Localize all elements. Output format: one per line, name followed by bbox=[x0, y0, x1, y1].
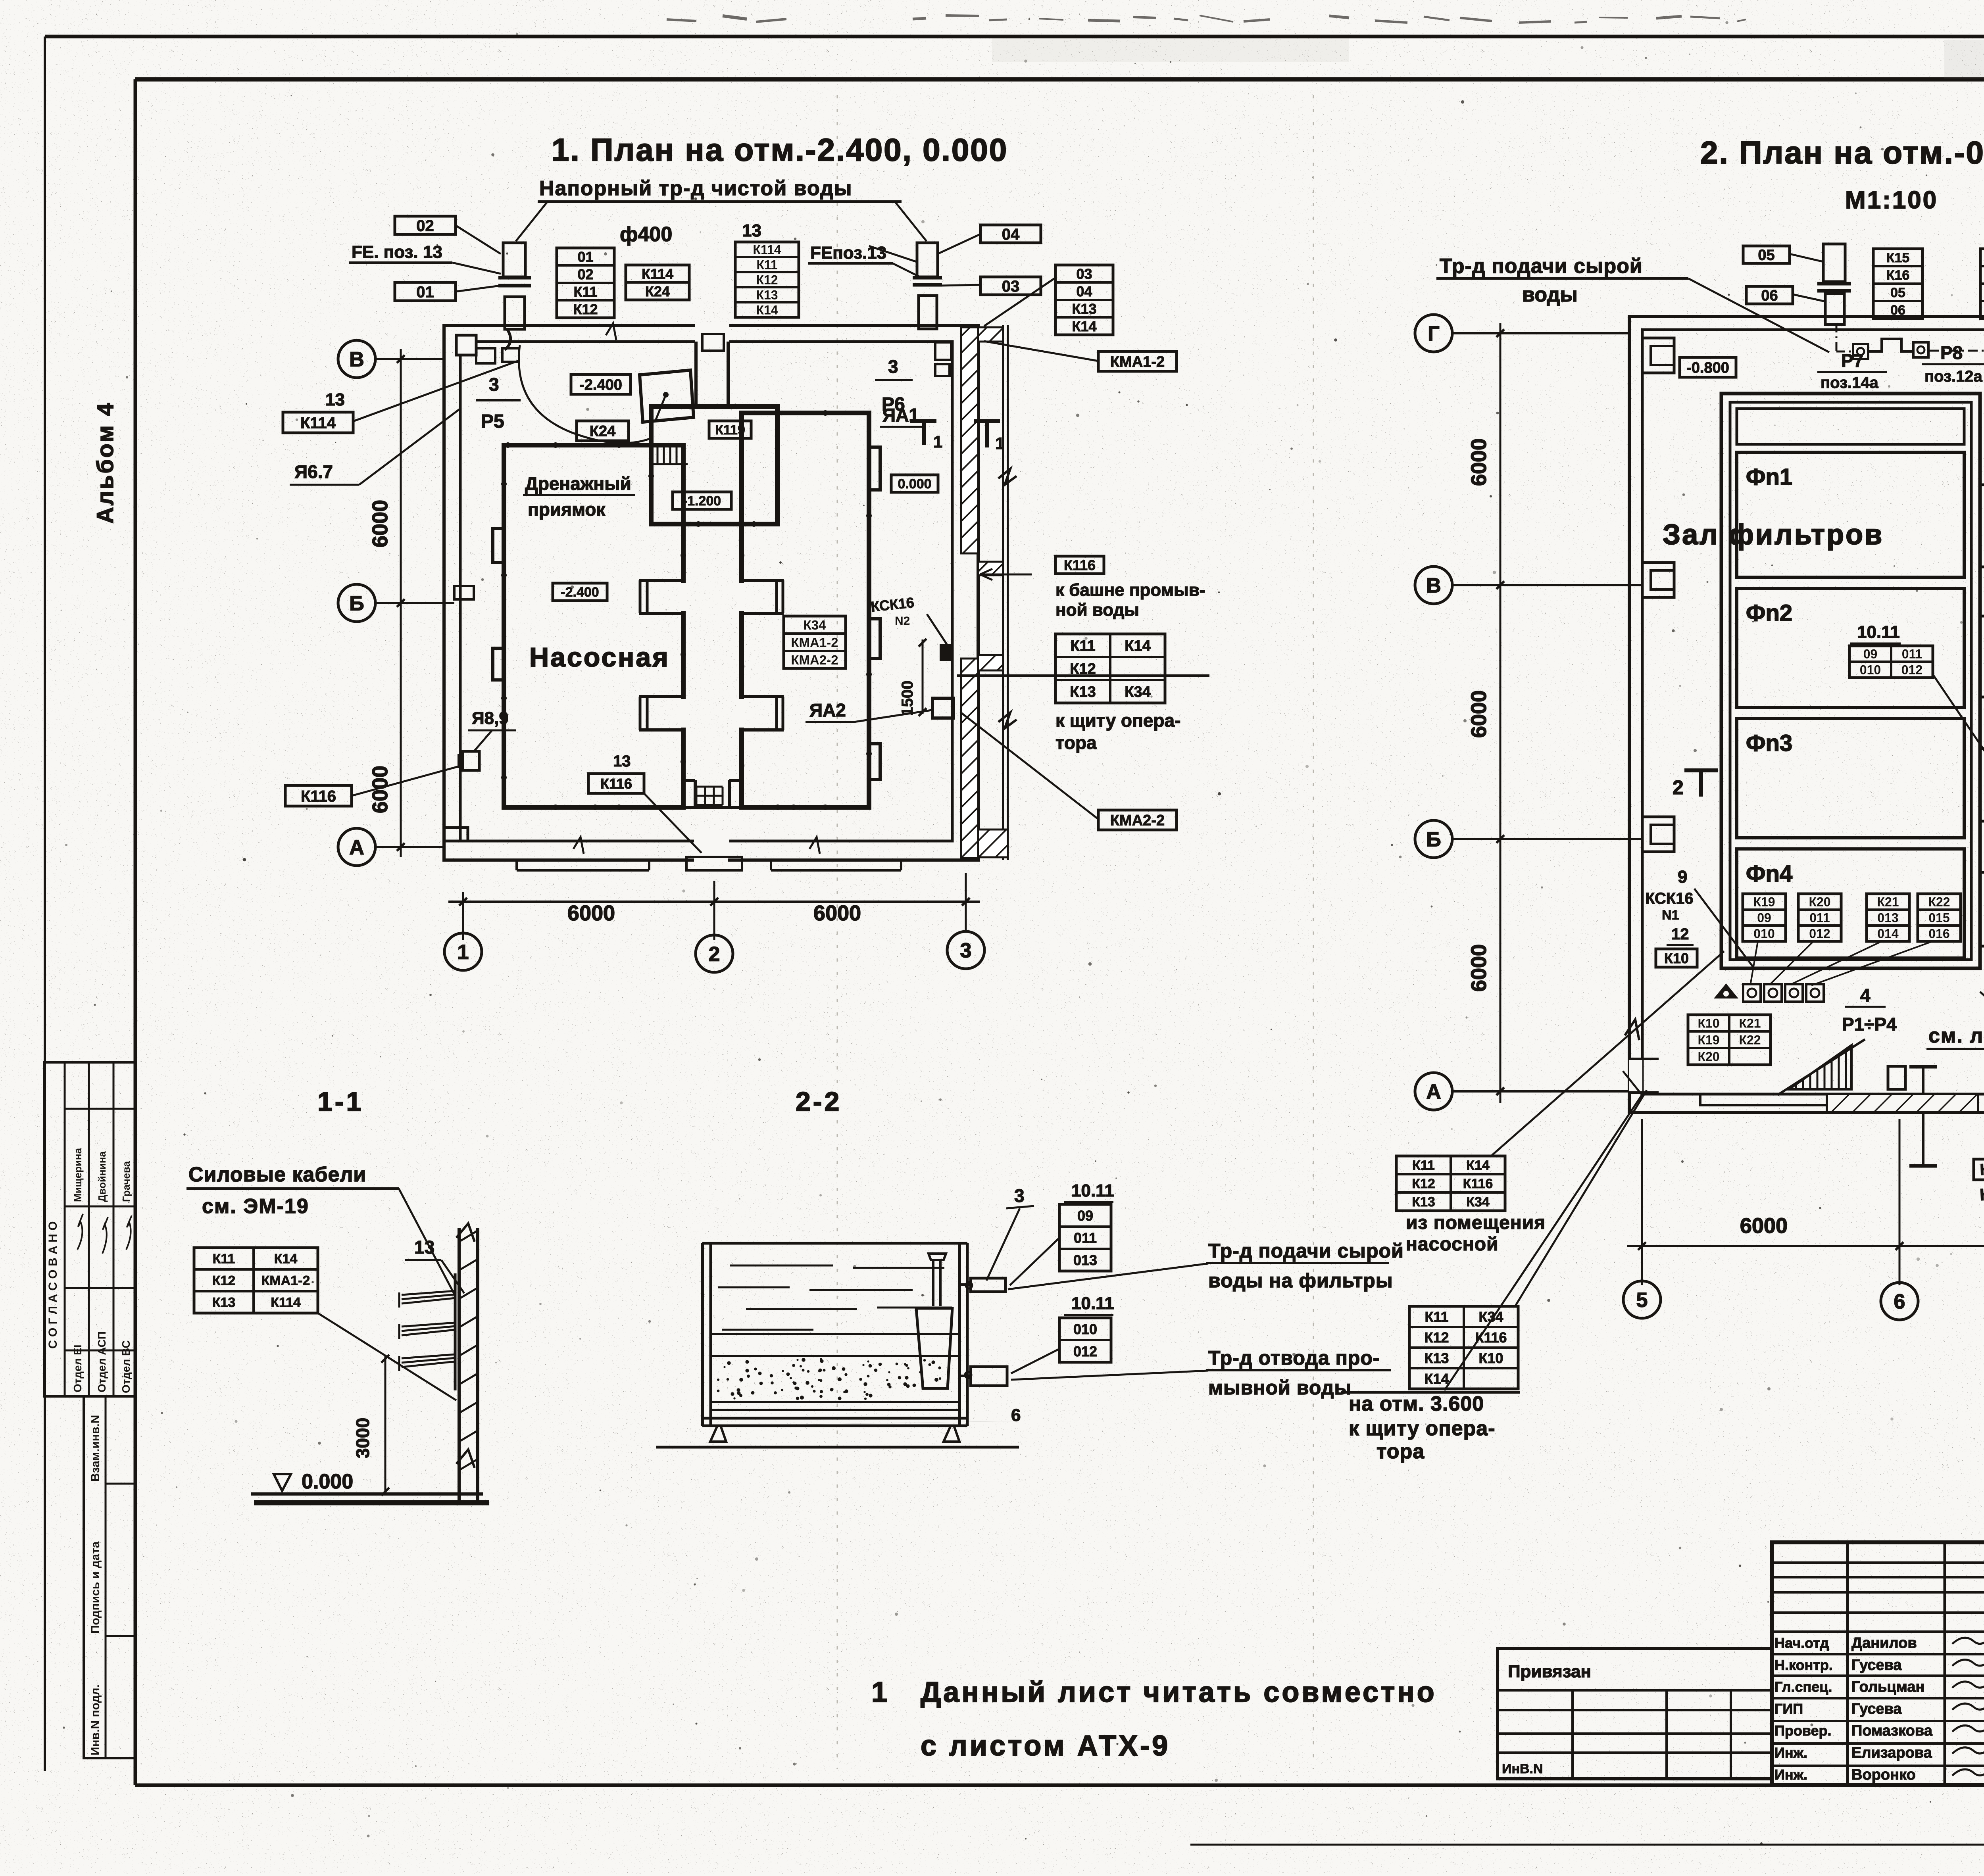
svg-text:010: 010 bbox=[1073, 1321, 1097, 1337]
svg-text:мывной воды: мывной воды bbox=[1208, 1377, 1352, 1399]
svg-text:КМА2-2: КМА2-2 bbox=[1110, 812, 1165, 829]
svg-text:05: 05 bbox=[1758, 247, 1774, 264]
svg-text:К21: К21 bbox=[1739, 1016, 1761, 1031]
svg-text:1-1: 1-1 bbox=[317, 1087, 363, 1117]
svg-text:К114: К114 bbox=[271, 1295, 301, 1310]
svg-text:03: 03 bbox=[1002, 278, 1020, 295]
svg-text:К116: К116 bbox=[600, 776, 632, 792]
svg-text:FE. поз. 13: FE. поз. 13 bbox=[352, 242, 442, 262]
svg-text:К12: К12 bbox=[573, 301, 598, 317]
svg-text:Н.контр.: Н.контр. bbox=[1774, 1657, 1833, 1673]
svg-text:КМА2-2: КМА2-2 bbox=[791, 653, 838, 667]
svg-text:К16: К16 bbox=[1886, 268, 1910, 283]
svg-text:ной воды: ной воды bbox=[1055, 600, 1139, 620]
svg-text:1. План на отм.-2.400, 0.000: 1. План на отм.-2.400, 0.000 bbox=[552, 132, 1008, 167]
svg-text:К11: К11 bbox=[573, 284, 597, 300]
svg-text:Фn2: Фn2 bbox=[1746, 600, 1792, 626]
svg-text:Данилов: Данилов bbox=[1851, 1635, 1917, 1651]
svg-text:Насосная: Насосная bbox=[529, 642, 670, 672]
svg-text:012: 012 bbox=[1073, 1343, 1097, 1359]
svg-text:К14: К14 bbox=[274, 1252, 298, 1267]
svg-text:Б: Б bbox=[1426, 828, 1441, 851]
svg-text:013: 013 bbox=[1073, 1252, 1097, 1268]
svg-text:К114: К114 bbox=[753, 243, 781, 257]
svg-text:-1.200: -1.200 bbox=[683, 493, 721, 509]
svg-text:А: А bbox=[1426, 1081, 1441, 1104]
svg-text:6000: 6000 bbox=[1467, 690, 1491, 738]
svg-text:К13: К13 bbox=[1424, 1350, 1449, 1366]
svg-text:3000: 3000 bbox=[352, 1418, 373, 1458]
svg-text:13: 13 bbox=[414, 1237, 434, 1258]
svg-text:В: В bbox=[1426, 574, 1441, 597]
svg-text:3: 3 bbox=[1014, 1185, 1025, 1206]
svg-text:тора: тора bbox=[1055, 732, 1097, 753]
svg-text:К119: К119 bbox=[715, 422, 745, 438]
svg-text:2: 2 bbox=[709, 943, 720, 966]
svg-text:К14: К14 bbox=[756, 303, 778, 317]
svg-text:приямок: приямок bbox=[528, 499, 606, 520]
svg-text:010: 010 bbox=[1753, 927, 1774, 941]
svg-text:10.11: 10.11 bbox=[1071, 1294, 1114, 1313]
svg-text:Р5: Р5 bbox=[481, 411, 504, 432]
svg-text:6000: 6000 bbox=[368, 500, 392, 547]
svg-text:FEпоз.13: FEпоз.13 bbox=[810, 243, 886, 263]
svg-text:04: 04 bbox=[1002, 226, 1020, 243]
svg-text:-0.800: -0.800 bbox=[1686, 360, 1729, 376]
svg-text:К13: К13 bbox=[1072, 301, 1096, 317]
svg-text:К19: К19 bbox=[1753, 895, 1775, 909]
svg-text:011: 011 bbox=[1809, 911, 1830, 925]
svg-text:К114: К114 bbox=[642, 266, 673, 282]
svg-text:6000: 6000 bbox=[813, 901, 861, 925]
svg-text:Напорный тр-д чистой воды: Напорный тр-д чистой воды bbox=[539, 177, 852, 200]
svg-text:09: 09 bbox=[1863, 647, 1878, 661]
svg-text:2-2: 2-2 bbox=[796, 1087, 842, 1117]
svg-text:КМА1-2: КМА1-2 bbox=[1110, 354, 1165, 371]
svg-text:Я8,9: Я8,9 bbox=[472, 709, 509, 728]
svg-text:015: 015 bbox=[1928, 911, 1949, 925]
svg-text:С О Г Л А С О В А Н О: С О Г Л А С О В А Н О bbox=[46, 1221, 60, 1349]
svg-text:09: 09 bbox=[1077, 1208, 1093, 1224]
svg-text:К12: К12 bbox=[212, 1273, 236, 1288]
svg-text:09: 09 bbox=[1757, 911, 1771, 925]
svg-text:011: 011 bbox=[1902, 647, 1922, 661]
svg-text:к щиту опера-: к щиту опера- bbox=[1349, 1417, 1496, 1440]
svg-text:06: 06 bbox=[1761, 288, 1778, 304]
svg-text:3: 3 bbox=[489, 374, 499, 395]
svg-text:Грачева: Грачева bbox=[120, 1161, 132, 1202]
svg-text:6000: 6000 bbox=[1740, 1214, 1788, 1238]
svg-text:Гольцман: Гольцман bbox=[1851, 1679, 1924, 1696]
svg-text:К11: К11 bbox=[1412, 1158, 1435, 1173]
svg-text:9: 9 bbox=[1678, 867, 1687, 887]
svg-text:Р1÷Р4: Р1÷Р4 bbox=[1842, 1014, 1897, 1035]
svg-text:Провер.: Провер. bbox=[1774, 1722, 1832, 1739]
svg-text:5: 5 bbox=[1636, 1289, 1648, 1312]
svg-text:Тр-д подачи сырой: Тр-д подачи сырой bbox=[1440, 255, 1643, 278]
svg-text:2: 2 bbox=[1673, 776, 1684, 799]
svg-text:см. ЭМ-19: см. ЭМ-19 bbox=[202, 1195, 309, 1218]
svg-text:К11: К11 bbox=[1425, 1309, 1448, 1325]
svg-text:К11: К11 bbox=[756, 258, 777, 272]
svg-text:6000: 6000 bbox=[1467, 438, 1491, 486]
svg-text:Тр-д отвода про-: Тр-д отвода про- bbox=[1208, 1347, 1380, 1369]
svg-text:ГИП: ГИП bbox=[1774, 1701, 1803, 1717]
svg-text:012: 012 bbox=[1809, 927, 1830, 941]
svg-text:-2.400: -2.400 bbox=[579, 377, 622, 394]
svg-text:К116: К116 bbox=[301, 787, 336, 805]
svg-text:13: 13 bbox=[742, 221, 761, 240]
svg-text:к щиту опера-: к щиту опера- bbox=[1055, 710, 1180, 731]
svg-text:1: 1 bbox=[871, 1676, 887, 1708]
svg-text:с листом АТХ-9: с листом АТХ-9 bbox=[921, 1730, 1170, 1762]
svg-text:ЯА2: ЯА2 bbox=[809, 700, 846, 720]
svg-text:К13: К13 bbox=[1070, 684, 1096, 701]
svg-text:N1: N1 bbox=[1662, 908, 1679, 923]
svg-text:Отдел АСП: Отдел АСП bbox=[96, 1331, 108, 1392]
svg-text:К12: К12 bbox=[1412, 1176, 1435, 1191]
svg-text:К19: К19 bbox=[1698, 1033, 1719, 1047]
svg-text:1: 1 bbox=[933, 432, 942, 451]
svg-text:К34: К34 bbox=[1478, 1309, 1503, 1325]
svg-text:А: А bbox=[349, 836, 364, 859]
svg-text:Б: Б bbox=[349, 592, 364, 615]
svg-text:М1:100: М1:100 bbox=[1845, 186, 1938, 214]
svg-text:К13: К13 bbox=[1412, 1194, 1435, 1210]
svg-text:01: 01 bbox=[577, 249, 593, 265]
svg-text:10.11: 10.11 bbox=[1071, 1181, 1114, 1200]
svg-text:К114: К114 bbox=[300, 414, 336, 432]
svg-text:0.000: 0.000 bbox=[302, 1470, 353, 1493]
svg-text:03: 03 bbox=[1076, 266, 1092, 282]
svg-text:поз.12а: поз.12а bbox=[1924, 368, 1983, 385]
svg-text:Взам.инв.N: Взам.инв.N bbox=[89, 1415, 102, 1482]
svg-text:воды: воды bbox=[1522, 283, 1578, 306]
svg-text:Привязан: Привязан bbox=[1508, 1662, 1591, 1681]
svg-text:К14: К14 bbox=[1072, 318, 1096, 334]
svg-text:Инв.N подл.: Инв.N подл. bbox=[89, 1684, 102, 1755]
svg-text:Фn3: Фn3 bbox=[1746, 730, 1792, 756]
svg-text:насосной: насосной bbox=[1406, 1234, 1499, 1255]
svg-text:012: 012 bbox=[1901, 663, 1922, 677]
svg-text:К14: К14 bbox=[1125, 638, 1150, 655]
svg-text:тора: тора bbox=[1376, 1440, 1425, 1463]
svg-text:011: 011 bbox=[1074, 1230, 1097, 1246]
svg-text:3: 3 bbox=[888, 356, 898, 377]
svg-text:Зал фильтров: Зал фильтров bbox=[1663, 519, 1884, 551]
svg-text:Г: Г bbox=[1428, 323, 1439, 346]
svg-text:К116: К116 bbox=[1064, 557, 1096, 573]
svg-text:К14: К14 bbox=[1466, 1158, 1490, 1173]
svg-text:010: 010 bbox=[1860, 663, 1881, 677]
svg-text:06: 06 bbox=[1890, 303, 1905, 318]
svg-text:Данный лист читать совместно: Данный лист читать совместно bbox=[921, 1676, 1437, 1708]
svg-text:6000: 6000 bbox=[1467, 944, 1491, 992]
svg-text:ИнВ.N: ИнВ.N bbox=[1502, 1761, 1543, 1776]
svg-text:Дренажный: Дренажный bbox=[525, 473, 631, 494]
svg-text:Подпись и дата: Подпись и дата bbox=[89, 1541, 102, 1634]
svg-text:КМА1-2: КМА1-2 bbox=[261, 1273, 310, 1288]
svg-text:Фn1: Фn1 bbox=[1746, 464, 1792, 490]
svg-text:014: 014 bbox=[1877, 927, 1899, 941]
svg-text:10.11: 10.11 bbox=[1857, 622, 1900, 642]
svg-text:N2: N2 bbox=[895, 614, 910, 628]
svg-text:на отм. 3.600: на отм. 3.600 bbox=[1349, 1392, 1484, 1415]
svg-text:К34: К34 bbox=[1466, 1194, 1490, 1210]
svg-text:воды на фильтры: воды на фильтры bbox=[1208, 1269, 1393, 1292]
svg-text:К11: К11 bbox=[213, 1252, 235, 1267]
svg-text:К12: К12 bbox=[1424, 1329, 1449, 1346]
svg-text:02: 02 bbox=[577, 266, 593, 282]
svg-text:Отдел ЕI: Отдел ЕI bbox=[71, 1345, 84, 1393]
svg-text:К22: К22 bbox=[1928, 895, 1950, 909]
svg-text:ф400: ф400 bbox=[620, 223, 672, 246]
svg-text:13: 13 bbox=[325, 390, 345, 409]
svg-text:К20: К20 bbox=[1809, 895, 1830, 909]
svg-text:6000: 6000 bbox=[567, 901, 615, 925]
svg-text:Елизарова: Елизарова bbox=[1851, 1745, 1932, 1761]
svg-text:К11: К11 bbox=[1070, 638, 1095, 655]
svg-text:Двойнина: Двойнина bbox=[96, 1151, 108, 1202]
svg-text:Тр-д подачи сырой: Тр-д подачи сырой bbox=[1208, 1240, 1404, 1262]
svg-text:К20: К20 bbox=[1698, 1050, 1719, 1064]
svg-text:016: 016 bbox=[1928, 927, 1949, 941]
svg-text:К15: К15 bbox=[1886, 250, 1910, 265]
svg-text:Мищерина: Мищерина bbox=[72, 1148, 84, 1202]
svg-text:К13: К13 bbox=[756, 288, 778, 302]
svg-text:013: 013 bbox=[1877, 911, 1898, 925]
svg-text:04: 04 bbox=[1076, 283, 1092, 300]
svg-text:см. лист ЭМ-20: см. лист ЭМ-20 bbox=[1928, 1024, 1984, 1047]
svg-text:0.000: 0.000 bbox=[898, 476, 931, 492]
svg-text:к башне промыв-: к башне промыв- bbox=[1055, 580, 1205, 600]
svg-text:2. План на отм.-0.800; 0.000: 2. План на отм.-0.800; 0.000 bbox=[1700, 135, 1984, 170]
svg-text:1: 1 bbox=[995, 434, 1004, 453]
svg-text:К14: К14 bbox=[1424, 1371, 1449, 1387]
svg-text:К10: К10 bbox=[1478, 1350, 1503, 1366]
svg-text:К21: К21 bbox=[1877, 895, 1899, 909]
svg-text:из помещения: из помещения bbox=[1406, 1212, 1546, 1233]
svg-text:К10: К10 bbox=[1664, 950, 1689, 966]
svg-text:Гусева: Гусева bbox=[1851, 1657, 1902, 1673]
svg-text:Силовые кабели: Силовые кабели bbox=[188, 1163, 366, 1186]
svg-text:К34: К34 bbox=[1125, 684, 1150, 701]
svg-text:1500: 1500 bbox=[899, 681, 916, 716]
svg-text:Отдел ВС: Отдел ВС bbox=[120, 1340, 132, 1393]
svg-text:К24: К24 bbox=[645, 283, 670, 300]
svg-text:К10: К10 bbox=[1698, 1016, 1719, 1031]
svg-text:13: 13 bbox=[613, 753, 631, 770]
svg-text:К34: К34 bbox=[804, 618, 826, 632]
svg-text:Гл.спец.: Гл.спец. bbox=[1774, 1679, 1832, 1695]
svg-text:Фn4: Фn4 bbox=[1746, 861, 1792, 887]
svg-text:Р8: Р8 bbox=[1940, 342, 1963, 363]
svg-text:К116: К116 bbox=[1463, 1176, 1493, 1191]
svg-text:КСК16: КСК16 bbox=[1645, 890, 1694, 907]
svg-text:3: 3 bbox=[960, 939, 972, 962]
svg-text:6: 6 bbox=[1894, 1290, 1905, 1313]
svg-text:К24: К24 bbox=[590, 423, 615, 440]
svg-text:Инж.: Инж. bbox=[1774, 1767, 1807, 1783]
svg-text:4: 4 bbox=[1860, 985, 1871, 1006]
svg-text:Альбом 4: Альбом 4 bbox=[92, 401, 118, 524]
svg-text:-2.400: -2.400 bbox=[561, 585, 599, 600]
svg-text:поз.14а: поз.14а bbox=[1821, 374, 1879, 392]
svg-text:Помазкова: Помазкова bbox=[1851, 1722, 1933, 1739]
svg-text:К22: К22 bbox=[1739, 1033, 1761, 1047]
svg-text:Гусева: Гусева bbox=[1851, 1701, 1902, 1717]
svg-text:К12: К12 bbox=[756, 273, 778, 287]
svg-text:6: 6 bbox=[1011, 1406, 1021, 1425]
svg-text:В: В bbox=[349, 348, 364, 371]
svg-text:К13: К13 bbox=[212, 1295, 236, 1310]
svg-text:Я6.7: Я6.7 bbox=[294, 461, 333, 482]
svg-text:Воронко: Воронко bbox=[1851, 1767, 1916, 1783]
svg-text:Нач.отд: Нач.отд bbox=[1774, 1635, 1829, 1651]
svg-text:Р7: Р7 bbox=[1841, 350, 1863, 371]
svg-text:01: 01 bbox=[416, 283, 434, 301]
svg-text:КМА1-2: КМА1-2 bbox=[791, 635, 838, 650]
svg-text:Инж.: Инж. bbox=[1774, 1745, 1807, 1761]
svg-text:12: 12 bbox=[1671, 926, 1689, 943]
svg-text:02: 02 bbox=[416, 217, 434, 234]
svg-text:1: 1 bbox=[458, 941, 469, 964]
svg-text:05: 05 bbox=[1890, 285, 1905, 300]
